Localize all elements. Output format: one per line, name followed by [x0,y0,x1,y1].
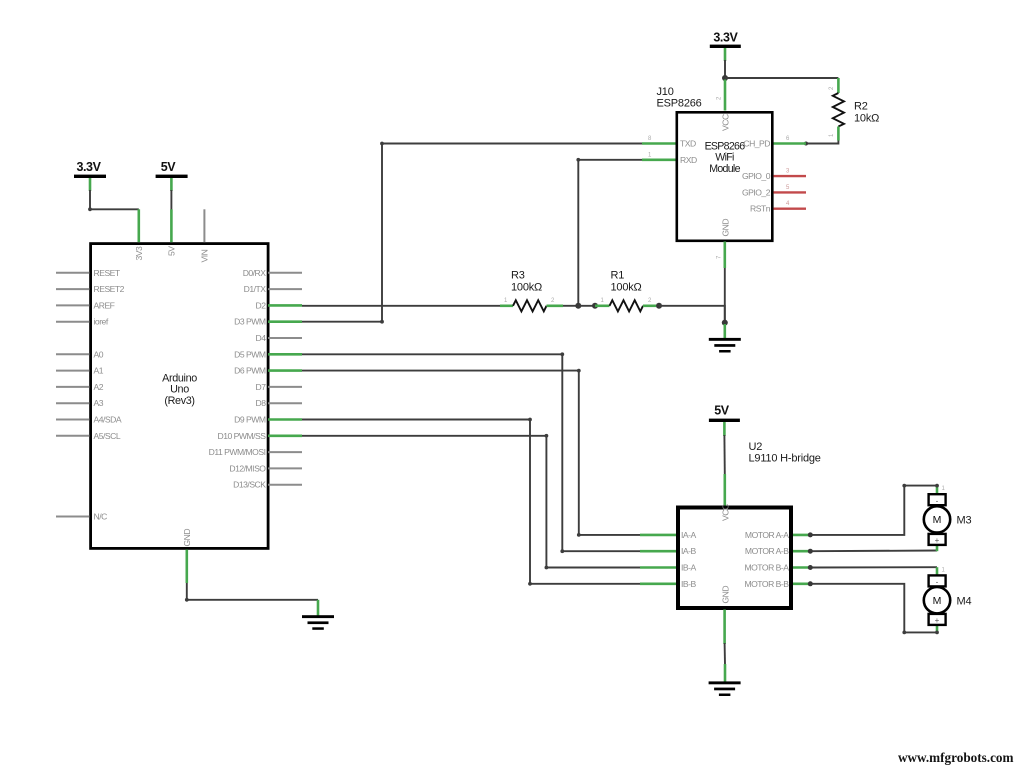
svg-text:Module: Module [709,163,740,175]
J10 reference label [657,86,702,110]
svg-text:RESET2: RESET2 [94,284,125,294]
wire 5V to Arduino 5V pin [170,178,173,242]
wire node to R1 pin1 [578,305,595,307]
wire MOTOR B-A to M4 minus [793,567,937,575]
svg-text:ioref: ioref [94,317,109,327]
wire 3.3V down to junction [724,48,727,78]
svg-text:MOTOR B-B: MOTOR B-B [744,579,789,589]
svg-text:D13/SCK: D13/SCK [233,480,266,490]
node junction R3/RXD [575,303,581,309]
Arduino left pin labels [94,268,125,522]
svg-text:MOTOR A-B: MOTOR A-B [745,546,789,556]
resistor R2 10k [829,78,879,141]
wire L9110 GND to ground [723,610,726,682]
Arduino right unconnected pin legs [268,273,302,485]
svg-text:M: M [933,595,942,607]
svg-text:D5 PWM: D5 PWM [234,349,266,359]
resistor R1 100k [595,270,656,312]
wire Arduino GND to ground [187,550,318,616]
L9110 pin labels [681,504,730,603]
junction 3.3V corner [88,207,92,211]
svg-text:M3: M3 [957,515,972,527]
ESP8266 module J10 body [677,112,773,241]
svg-text:ESP8266: ESP8266 [657,97,702,109]
svg-text:MOTOR A-A: MOTOR A-A [745,530,789,540]
svg-text:GND: GND [720,586,730,604]
svg-text:www.mfgrobots.com: www.mfgrobots.com [898,750,1014,765]
ESP pin labels [680,114,731,236]
Arduino right pin labels [209,268,267,490]
wire MOTOR B-B to M4 plus [793,584,937,633]
svg-text:3.3V: 3.3V [713,31,738,45]
svg-text:A0: A0 [94,349,104,359]
svg-text:R2: R2 [854,101,868,113]
svg-text:+: + [935,616,940,625]
svg-text:RESET: RESET [94,268,121,278]
svg-text:R3: R3 [511,270,525,282]
svg-text:N/C: N/C [94,512,108,522]
svg-text:D7: D7 [256,382,267,392]
power symbol 5V (L9110) [709,404,740,423]
svg-text:M: M [933,514,942,526]
svg-text:A3: A3 [94,398,104,408]
svg-text:-: - [936,578,939,587]
svg-text:D8: D8 [256,398,267,408]
motor M4 [924,568,972,626]
svg-text:J10: J10 [657,86,674,98]
wire junction to ground symbol [723,324,726,339]
wire ESP GND to ground [723,242,726,323]
svg-text:D11 PWM/MOSI: D11 PWM/MOSI [209,447,266,457]
wire junction to R2 top [725,77,838,79]
ground symbol (Arduino GND) [302,615,334,630]
node junction GND net [722,320,728,326]
ESP GPIO_2 red leg [774,191,807,193]
svg-text:L9110 H-bridge: L9110 H-bridge [749,453,821,465]
Arduino top pin rotated labels 3V3 5V VIN [134,246,210,263]
svg-text:IA-B: IA-B [681,546,696,556]
svg-text:D2: D2 [256,300,267,310]
svg-text:-: - [936,497,939,506]
svg-text:WiFi: WiFi [715,152,734,164]
Arduino left pin legs (RESET..A5/SCL, N/C) [56,273,90,517]
svg-text:5V: 5V [161,160,177,174]
svg-text:M4: M4 [957,595,972,607]
node junction R1 pin2 [656,303,662,309]
wire R1 pin2 to ESP GND net [659,306,725,323]
svg-text:D0/RX: D0/RX [243,268,267,278]
svg-text:VCC: VCC [721,114,731,131]
svg-text:(Rev3): (Rev3) [164,395,194,407]
svg-text:+: + [935,536,940,545]
svg-text:A4/SDA: A4/SDA [94,415,122,425]
svg-text:VIN: VIN [200,249,210,262]
svg-text:IA-A: IA-A [681,530,696,540]
svg-text:RXD: RXD [680,155,697,165]
ground symbol (L9110 GND) [709,681,741,696]
wire MOTOR A-B to M3 plus [793,545,937,551]
svg-text:D6 PWM: D6 PWM [234,366,266,376]
U2 reference label [749,441,821,465]
svg-text:R1: R1 [611,270,625,282]
svg-text:Uno: Uno [170,384,189,396]
wire Arduino D2 to R3 (net row) [268,304,500,307]
ground symbol (ESP GND) [709,338,741,353]
wire 5V to L9110 VCC [723,422,726,506]
wire Arduino D6 to L9110 IA-A [268,371,676,535]
wire Arduino D3 to ESP TXD [268,144,675,322]
wire Arduino D10 to L9110 IB-A [268,436,676,568]
wire R2 bottom to ESP CH_PD [806,141,838,144]
svg-text:D10 PWM/SS: D10 PWM/SS [217,431,266,441]
wire junction to ESP VCC pin [724,80,727,111]
svg-text:Arduino: Arduino [162,373,197,385]
svg-text:GND: GND [182,529,192,547]
svg-text:D12/MISO: D12/MISO [229,463,266,473]
svg-text:A1: A1 [94,366,104,376]
wire R3 pin2 to node [563,305,578,307]
svg-text:TXD: TXD [680,139,696,149]
resistor R3 100k [500,270,563,312]
svg-text:100kΩ: 100kΩ [611,282,642,294]
power symbol 5V (left) [156,160,188,178]
wire 3.3V to Arduino 3V3 pin [90,178,139,242]
ESP RSTn red leg [774,207,807,209]
svg-text:IB-A: IB-A [681,563,696,573]
Arduino VIN top pin leg (unconnected) [203,209,205,242]
wire MOTOR A-A to M3 minus [793,486,937,535]
L9110 H-bridge U2 body [678,508,791,609]
svg-text:D4: D4 [256,333,267,343]
svg-text:D9 PWM: D9 PWM [234,415,266,425]
svg-text:GND: GND [721,219,731,237]
node junction 3.3V / VCC / R2 [722,75,728,81]
svg-text:AREF: AREF [94,300,115,310]
svg-text:GPIO_0: GPIO_0 [742,171,771,181]
svg-text:RSTn: RSTn [750,204,771,214]
svg-text:MOTOR B-A: MOTOR B-A [744,563,789,573]
svg-text:5V: 5V [714,404,730,418]
svg-text:D3 PWM: D3 PWM [234,317,266,327]
wire Arduino D9 to L9110 IB-B [268,420,676,584]
svg-text:VCC: VCC [720,504,730,521]
wire Arduino D5 to L9110 IA-B [268,354,676,551]
svg-text:5V: 5V [167,246,177,256]
svg-text:100kΩ: 100kΩ [511,282,542,294]
motor M3 [924,486,972,545]
power symbol 3.3V (ESP) [710,31,741,49]
ESP GPIO_0 red leg [774,175,807,177]
svg-text:10kΩ: 10kΩ [854,113,879,125]
node junction R1 pin1 [592,303,598,309]
wire ESP RXD down to R3/R1 node [578,160,675,306]
svg-text:A5/SCL: A5/SCL [94,431,121,441]
svg-text:GPIO_2: GPIO_2 [742,187,771,197]
power symbol 3.3V (left) [74,160,106,178]
ESP CH_PD pin leg [774,142,807,145]
svg-text:D1/TX: D1/TX [244,284,267,294]
svg-text:IB-B: IB-B [681,579,696,589]
svg-text:3.3V: 3.3V [76,160,101,174]
svg-text:A2: A2 [94,382,104,392]
svg-text:3V3: 3V3 [134,246,144,261]
svg-text:CH_PD: CH_PD [743,139,770,149]
svg-text:ESP8266: ESP8266 [705,141,746,153]
Arduino Uno module body [91,244,269,549]
ESP pin numbers [648,136,790,158]
svg-text:U2: U2 [749,441,763,453]
